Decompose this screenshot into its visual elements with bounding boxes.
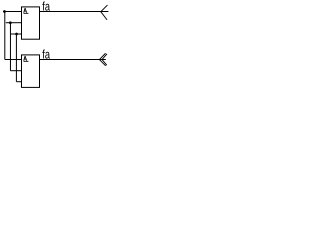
wire vertical net B bbox=[9, 23, 11, 71]
label U2 port A bbox=[24, 56, 27, 61]
full-adder U1 box bbox=[22, 7, 40, 39]
wire vertical net A bbox=[4, 12, 6, 60]
wire net C to U2 pin C bbox=[16, 81, 21, 83]
junction dot node B bbox=[9, 21, 12, 24]
port arrow output 2 (double chevron) bbox=[99, 54, 105, 60]
wire U1 output S bbox=[40, 11, 109, 13]
wire U2 output S bbox=[40, 59, 106, 61]
wire vertical net C bbox=[15, 34, 17, 82]
junction dot node A bbox=[3, 10, 6, 13]
wire net B to U1 pin B bbox=[6, 22, 22, 24]
label U1 instance name fa bbox=[42, 1, 50, 10]
junction dot node C bbox=[15, 33, 18, 36]
wire net A to U2 pin A bbox=[5, 59, 22, 61]
port arrow output 1 bbox=[101, 5, 107, 11]
underline of U1 port A label bbox=[24, 12, 29, 14]
full-adder U2 box bbox=[22, 55, 40, 88]
label U1 port A bbox=[24, 8, 27, 13]
wire net B to U2 pin B bbox=[10, 70, 21, 72]
label U2 instance name fa bbox=[42, 49, 50, 58]
wire net C to U1 pin C bbox=[11, 33, 22, 35]
underline of U2 port A label bbox=[24, 60, 29, 62]
wire net A to U1 pin A bbox=[3, 11, 22, 13]
